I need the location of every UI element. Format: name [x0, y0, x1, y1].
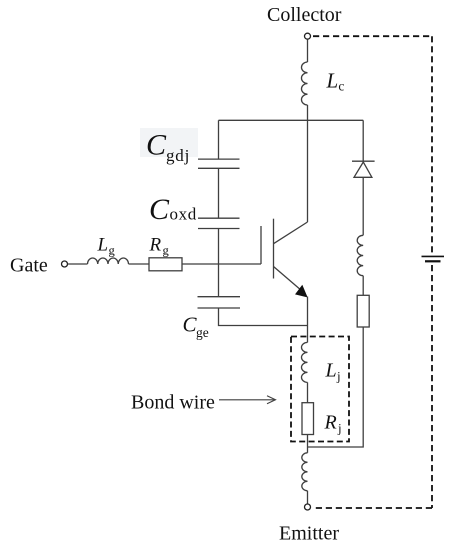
inductor Lg	[88, 258, 129, 264]
svg-text:L: L	[97, 235, 109, 256]
capacitor Coxd	[198, 218, 240, 228]
svg-text:L: L	[326, 69, 339, 93]
wire branch down to diode	[362, 120, 364, 161]
svg-text:c: c	[338, 79, 344, 94]
svg-text:Emitter: Emitter	[279, 523, 339, 545]
battery V1 long plate	[422, 255, 445, 257]
inductor Lj	[302, 342, 308, 382]
wire branch to Cgdj	[218, 120, 220, 159]
svg-text:ge: ge	[196, 325, 209, 340]
faint label background	[140, 128, 198, 157]
battery V1 short plate	[425, 260, 441, 262]
transistor IGBT gate bar	[260, 226, 262, 264]
wire Coxd to Cge	[218, 229, 220, 297]
resistor Rj	[302, 403, 314, 435]
node Emitter terminal	[305, 504, 311, 510]
svg-text:C: C	[146, 129, 167, 162]
svg-text:j: j	[337, 421, 342, 436]
wire branch node horizontal	[219, 119, 364, 121]
transistor IGBT body bar	[273, 219, 275, 279]
node Gate terminal	[62, 261, 68, 267]
diode D1	[352, 160, 375, 162]
svg-text:R: R	[324, 412, 337, 434]
resistor stray (right branch)	[357, 295, 369, 327]
wire dashed DC-link bottom	[313, 507, 432, 509]
inductor Lc	[301, 62, 307, 105]
wire diode to coil	[362, 177, 364, 235]
svg-text:R: R	[149, 235, 162, 256]
svg-text:Gate: Gate	[10, 255, 48, 277]
svg-text:L: L	[325, 360, 337, 382]
wire dashed DC-link top	[313, 35, 432, 37]
svg-text:oxd: oxd	[170, 205, 197, 224]
wire Cge down and right to emitter line	[219, 308, 308, 326]
wire Lg to Rg	[129, 263, 150, 265]
inductor stray (right branch)	[357, 235, 363, 275]
wire IGBT emitter down into bond box	[307, 297, 309, 343]
capacitor Cge	[198, 297, 241, 308]
wire Cgdj to Coxd	[218, 168, 220, 218]
wire coil to emitter terminal	[307, 491, 309, 504]
svg-text:gdj: gdj	[166, 146, 190, 165]
bond wire dashed box	[291, 337, 349, 442]
wire collector circle to Lc	[307, 39, 309, 62]
svg-text:C: C	[149, 193, 170, 226]
node Collector terminal	[305, 33, 311, 39]
wire resistor down and left to emitter line	[308, 327, 364, 447]
svg-text:Collector: Collector	[267, 4, 342, 26]
resistor Rg	[149, 258, 182, 271]
wire Lc to IGBT collector node	[307, 105, 309, 222]
capacitor Cgdj	[198, 159, 240, 168]
svg-text:Bond wire: Bond wire	[131, 392, 215, 414]
inductor Le emitter coil	[302, 453, 308, 491]
svg-text:j: j	[336, 369, 341, 384]
wire coil to resistor	[362, 276, 364, 296]
wire Rg to IGBT gate	[182, 263, 261, 265]
wire dashed DC-link right lower	[431, 265, 433, 508]
transistor IGBT collector diagonal	[274, 222, 308, 244]
wire dashed DC-link right upper	[431, 36, 433, 252]
transistor IGBT emitter diagonal with arrow	[274, 267, 301, 290]
wire gate circle to Lg	[68, 263, 88, 265]
wire Lj to Rj	[307, 382, 309, 402]
svg-text:g: g	[109, 244, 116, 258]
svg-text:g: g	[163, 244, 170, 258]
wire Rj to emitter junction	[307, 435, 309, 453]
arrow Bond wire pointer	[219, 396, 276, 404]
